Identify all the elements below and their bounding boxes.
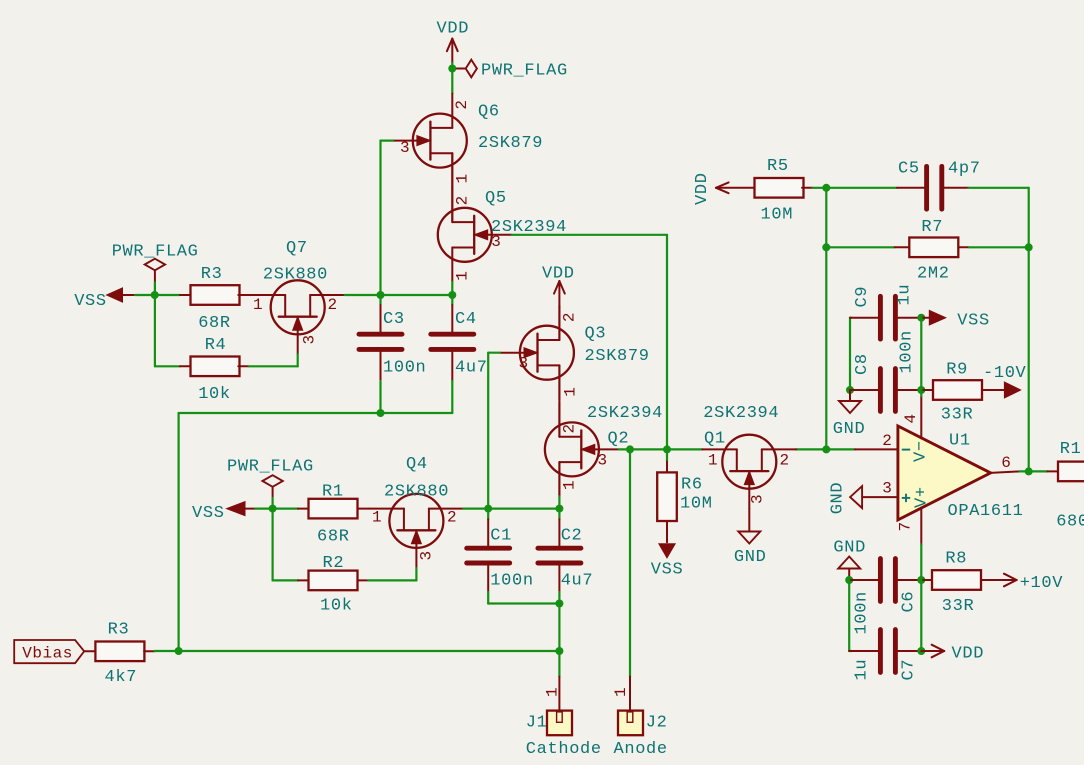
svg-text:3: 3 (749, 494, 767, 504)
power symbol VSS (row N) (228, 502, 245, 515)
capacitor C5 4p7 (897, 187, 924, 189)
wire Q6 gate (381, 140, 393, 142)
transistor Q4 2SK880 (369, 494, 463, 568)
capacitor C2 4u7 (558, 509, 560, 520)
svg-text:VSS: VSS (74, 292, 107, 311)
svg-text:4: 4 (902, 413, 920, 423)
junction J2 column (626, 445, 634, 453)
junction C2 top (555, 505, 563, 513)
svg-text:3: 3 (301, 334, 319, 344)
svg-text:2: 2 (453, 99, 471, 109)
svg-text:1: 1 (454, 173, 472, 183)
svg-text:R3: R3 (201, 265, 223, 284)
op-amp U1 OPA1611 (898, 426, 991, 520)
svg-text:U1: U1 (949, 432, 971, 451)
svg-text:C7: C7 (900, 659, 919, 681)
svg-text:100n: 100n (383, 359, 426, 378)
wire Q5 gate to feedback column (512, 234, 667, 236)
svg-text:100n: 100n (853, 591, 872, 634)
svg-text:R8: R8 (945, 550, 967, 569)
svg-text:10M: 10M (761, 206, 794, 225)
wire Q7 drain to C3/C4 row (345, 294, 453, 296)
svg-text:2: 2 (561, 423, 579, 433)
svg-text:1: 1 (253, 296, 263, 314)
pin 7 of U1 (920, 507, 922, 544)
junction C1 top (484, 505, 492, 513)
svg-text:R3: R3 (108, 620, 130, 639)
wire C9 left branch (850, 317, 851, 319)
wire VSS to R3 (135, 294, 180, 296)
svg-text:R9: R9 (946, 360, 968, 379)
transistor Q2 2SK2394 (545, 402, 619, 496)
svg-text:R6: R6 (681, 476, 703, 495)
svg-text:PWR_FLAG: PWR_FLAG (112, 243, 199, 262)
svg-text:2SK880: 2SK880 (263, 265, 328, 284)
svg-text:4u7: 4u7 (561, 572, 594, 591)
svg-text:2SK2394: 2SK2394 (587, 404, 663, 423)
svg-text:Anode: Anode (614, 740, 668, 759)
svg-text:GND: GND (833, 538, 866, 557)
svg-text:33R: 33R (942, 597, 975, 616)
ground GND below Q1 (748, 509, 750, 532)
wire R5 to C5 (813, 187, 898, 189)
svg-text:C3: C3 (383, 310, 405, 329)
svg-text:Q4: Q4 (406, 455, 428, 474)
svg-text:2SK880: 2SK880 (384, 483, 449, 502)
svg-text:V−: V− (912, 440, 931, 462)
junction at PWR_FLAG left (151, 291, 159, 299)
svg-text:1: 1 (454, 271, 472, 281)
capacitor C7 1u (849, 650, 880, 652)
junction U1 pin7 / C6 right (917, 576, 925, 584)
ground GND at U1 pin3 (850, 486, 862, 508)
wire right column to output (1028, 247, 1030, 471)
transistor Q1 2SK2394 (702, 435, 796, 509)
svg-text:7: 7 (897, 521, 915, 531)
svg-text:GND: GND (829, 482, 848, 515)
resistor R1 680 (output) (1029, 470, 1048, 472)
svg-text:10k: 10k (320, 597, 353, 616)
svg-text:2: 2 (447, 509, 457, 527)
svg-text:2: 2 (882, 432, 892, 450)
svg-text:C1: C1 (490, 526, 512, 545)
power symbol VSS (below R6) (666, 521, 668, 542)
svg-text:OPA1611: OPA1611 (948, 502, 1024, 521)
wire R4 to Q7 gate (249, 365, 298, 367)
svg-text:VDD: VDD (542, 265, 575, 284)
resistor R4 10k (180, 365, 191, 367)
svg-text:Cathode: Cathode (526, 740, 602, 759)
svg-text:V+: V+ (913, 486, 932, 508)
svg-text:R2: R2 (323, 554, 345, 573)
wire C9 to C8 column (920, 318, 922, 390)
wire Q3 gate down to C1 (488, 352, 500, 354)
wire Q2 gate to Q1 (619, 448, 702, 450)
pin 6 of U1 (991, 471, 1020, 473)
power symbol VDD (above Q3) (558, 281, 560, 306)
svg-text:C5: C5 (898, 160, 920, 179)
wire Q5 source down (451, 282, 453, 295)
svg-text:4p7: 4p7 (948, 160, 981, 179)
junction R6 top (663, 445, 671, 453)
resistor R3 4k7 (84, 650, 95, 652)
junction R7 left (822, 243, 830, 251)
svg-text:-10V: -10V (983, 364, 1027, 383)
svg-text:+10V: +10V (1020, 574, 1064, 593)
power symbol VSS (left, row A) (108, 289, 122, 302)
wire bottom row of C3/C4 (179, 412, 453, 414)
wire Q1 drain to U1- (796, 448, 855, 450)
transistor Q5 2SK2394 (438, 188, 512, 282)
junction C4 top (448, 291, 456, 299)
capacitor C6 100n (849, 579, 880, 581)
resistor R9 33R (921, 389, 933, 391)
svg-text:PWR_FLAG: PWR_FLAG (227, 458, 314, 477)
junction VDD node (448, 65, 456, 73)
svg-text:33R: 33R (941, 405, 974, 424)
wire R1 to Q4 (358, 508, 370, 510)
wire VSS to R1 (255, 508, 298, 510)
svg-text:2SK879: 2SK879 (585, 347, 650, 366)
capacitor C9 1u (850, 317, 880, 319)
svg-text:GND: GND (734, 548, 767, 567)
svg-text:1: 1 (372, 509, 382, 527)
svg-text:3: 3 (418, 550, 436, 560)
svg-text:68R: 68R (317, 528, 350, 547)
svg-text:4u7: 4u7 (455, 359, 488, 378)
svg-text:100n: 100n (898, 330, 917, 373)
junction output node (1025, 467, 1033, 475)
svg-text:3: 3 (598, 452, 608, 470)
capacitor C1 100n (487, 509, 489, 520)
capacitor C3 100n (379, 295, 381, 305)
svg-text:10M: 10M (680, 494, 713, 513)
junction R7 right (1025, 243, 1033, 251)
svg-text:J2: J2 (646, 713, 668, 732)
resistor R5 10M (755, 178, 804, 198)
capacitor C4 4u7 (451, 295, 453, 305)
svg-text:680: 680 (1056, 512, 1084, 531)
wire VSS column down to R2 (272, 509, 274, 581)
junction C3 top (377, 291, 385, 299)
svg-text:C9: C9 (853, 286, 872, 308)
svg-text:2SK2394: 2SK2394 (703, 404, 779, 423)
svg-text:1: 1 (612, 687, 630, 697)
hierarchical label Vbias (14, 640, 84, 663)
svg-text:C2: C2 (561, 526, 583, 545)
junction C9 right (917, 314, 925, 322)
svg-text:GND: GND (833, 420, 866, 439)
svg-text:3: 3 (491, 233, 501, 251)
pin 3 of U1 (862, 496, 898, 498)
junction PWR_FLAG mid (269, 505, 277, 513)
power symbol -10V (982, 389, 1005, 391)
svg-text:PWR_FLAG: PWR_FLAG (481, 62, 568, 81)
svg-text:100n: 100n (490, 572, 533, 591)
wire Q3 source to Q2 drain (558, 365, 560, 436)
junction feedback at U1- (822, 445, 830, 453)
wire R2 to Q4 gate (368, 579, 416, 581)
svg-text:VDD: VDD (952, 645, 985, 664)
wire C2 bottom to J1 (558, 604, 560, 677)
wire R7 row left (826, 246, 894, 248)
pin 4 of U1 (920, 396, 922, 439)
svg-text:2: 2 (780, 452, 790, 470)
svg-text:R7: R7 (921, 218, 943, 237)
power flag PWR_FLAG (left) (145, 259, 165, 271)
junction C2 bottom (555, 600, 563, 608)
transistor Q7 2SK880 (251, 280, 345, 354)
wire C5 to right column (969, 187, 1029, 189)
svg-text:1: 1 (708, 452, 718, 470)
ground GND at C8 (849, 390, 851, 401)
power flag PWR_FLAG (top) (452, 68, 466, 70)
svg-text:Q6: Q6 (478, 103, 500, 122)
connector J1 Cathode (558, 677, 560, 721)
junction C6 left (845, 576, 853, 584)
wire C6 right down to C7 right (920, 580, 922, 651)
resistor R2 10k (298, 579, 309, 581)
svg-text:J1: J1 (526, 713, 548, 732)
resistor R3 68R (180, 294, 191, 296)
svg-text:VDD: VDD (437, 20, 470, 39)
svg-text:10k: 10k (198, 385, 231, 404)
svg-text:Q7: Q7 (286, 239, 308, 258)
junction C7 right / VDD (917, 647, 925, 655)
svg-text:1: 1 (544, 687, 562, 697)
resistor R7 2M2 (895, 246, 910, 248)
junction Vbias column (175, 647, 183, 655)
svg-text:4k7: 4k7 (105, 668, 138, 687)
wire Q6 source to Q5 drain (451, 153, 453, 222)
svg-text:VSS: VSS (651, 561, 684, 580)
wire feedback left column (825, 188, 827, 450)
wire Vbias row (155, 650, 560, 652)
svg-text:Vbias: Vbias (22, 645, 73, 663)
svg-text:2: 2 (328, 296, 338, 314)
wire J2 column (629, 449, 631, 676)
power symbol +10V (981, 579, 1004, 581)
resistor R6 10M (666, 449, 668, 461)
svg-text:VDD: VDD (693, 172, 712, 205)
power symbol VSS (right of C9) (921, 317, 930, 319)
svg-text:VSS: VSS (192, 504, 225, 523)
power symbol VDD (left of R5) (716, 187, 755, 189)
svg-text:Q5: Q5 (485, 189, 507, 208)
svg-text:2M2: 2M2 (917, 265, 950, 284)
svg-text:R1: R1 (1060, 440, 1082, 459)
junction C8 left / GND (846, 386, 854, 394)
svg-text:C6: C6 (900, 591, 919, 613)
power symbol VDD (bottom right) (921, 650, 944, 652)
junction C3 bottom (377, 409, 385, 417)
capacitor C8 100n (850, 389, 880, 391)
junction R5/C5 node (822, 184, 830, 192)
svg-text:3: 3 (400, 139, 410, 157)
power symbol VDD (top) (451, 39, 453, 63)
wire Q2 source down (558, 462, 560, 496)
svg-text:1u: 1u (853, 659, 872, 681)
svg-text:1u: 1u (896, 284, 915, 306)
svg-text:2: 2 (561, 312, 579, 322)
resistor R8 33R (921, 579, 932, 581)
wire C6 left down to C7 (848, 580, 850, 651)
svg-text:R4: R4 (205, 336, 227, 355)
svg-text:R5: R5 (767, 157, 789, 176)
wire VDD to Q6 drain (451, 69, 453, 94)
wire Q4 pin2 to C1/C2 row (463, 508, 559, 510)
svg-text:VSS: VSS (957, 312, 990, 331)
svg-text:2SK879: 2SK879 (478, 134, 543, 153)
junction C8 right / U1 pin4 (917, 386, 925, 394)
svg-text:C4: C4 (455, 310, 477, 329)
junction Vbias to J1 (555, 647, 563, 655)
svg-text:2: 2 (454, 195, 472, 205)
wire VDD to Q3 drain (558, 306, 560, 340)
svg-text:C8: C8 (853, 353, 872, 375)
transistor Q3 2SK879 (500, 306, 574, 400)
resistor R1 68R (298, 508, 309, 510)
transistor Q6 2SK879 (393, 94, 467, 188)
svg-text:3: 3 (519, 355, 529, 373)
svg-text:Q1: Q1 (704, 430, 726, 449)
svg-text:Q2: Q2 (608, 430, 630, 449)
svg-text:3: 3 (882, 479, 892, 497)
svg-text:Q3: Q3 (585, 325, 607, 344)
svg-text:R1: R1 (322, 483, 344, 502)
svg-text:1: 1 (561, 480, 579, 490)
svg-text:1: 1 (562, 387, 580, 397)
pin 2 of U1 (855, 448, 898, 450)
svg-text:6: 6 (1001, 454, 1011, 472)
svg-text:68R: 68R (198, 314, 231, 333)
wire VSS column to R4 (154, 295, 156, 366)
wire R7 row right (969, 246, 1029, 248)
connector J2 Anode (629, 677, 631, 721)
power flag PWR_FLAG (mid) (262, 475, 282, 487)
